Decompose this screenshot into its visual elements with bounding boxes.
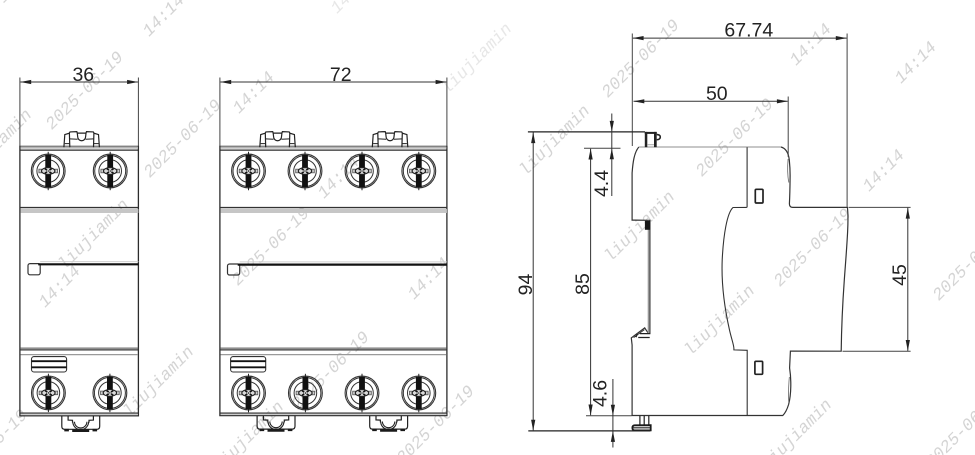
terminal screw top 2 — [288, 152, 322, 190]
terminal screw top 4 — [402, 152, 436, 190]
terminal screw bottom 3 — [345, 374, 379, 412]
vent grille — [231, 357, 266, 372]
svg-text:14:14: 14:14 — [230, 69, 280, 119]
side top clip hook — [657, 135, 661, 140]
extension 45 bottom — [843, 350, 911, 352]
svg-text:2025-06-19: 2025-06-19 — [394, 383, 480, 455]
inner contour (mechanism silhouette) — [722, 147, 747, 415]
top clip B — [372, 132, 408, 148]
svg-text:72: 72 — [330, 64, 352, 86]
top groove dark line — [220, 149, 447, 151]
svg-text:2025-06-19: 2025-06-19 — [923, 387, 975, 455]
terminal screw top 3 — [345, 152, 379, 190]
mid section boundary gray band — [21, 209, 139, 213]
dimension 50 line — [634, 100, 788, 102]
lower front bulge inner arc — [787, 377, 790, 403]
svg-text:14:14: 14:14 — [140, 0, 190, 41]
label slot shadow line — [40, 261, 138, 263]
mid section boundary dark line — [220, 207, 447, 209]
top groove gray band — [21, 146, 138, 148]
dimension 50 extension right — [787, 97, 789, 158]
svg-text:2025-06-19: 2025-06-19 — [43, 49, 129, 135]
svg-text:85: 85 — [572, 273, 594, 295]
svg-text:14:14: 14:14 — [328, 0, 378, 18]
dimension 72 extension line left — [219, 78, 221, 147]
mid section boundary dark line — [20, 207, 138, 209]
dimension 94 line — [532, 132, 534, 430]
svg-text:50: 50 — [706, 83, 728, 105]
upper front bulge inner arc — [788, 159, 789, 183]
lower boundary line 2 — [20, 349, 138, 351]
lower boundary gray band — [21, 354, 138, 356]
dimension 36 arrow right — [127, 80, 138, 84]
extension 85 top — [584, 147, 621, 149]
svg-text:liujiamin: liujiamin — [681, 282, 759, 360]
svg-text:94: 94 — [515, 274, 537, 296]
bottom edge line — [20, 412, 138, 414]
svg-text:2025-06-19: 2025-06-19 — [599, 17, 685, 103]
label slot line — [38, 263, 138, 265]
body outline 4-module — [220, 146, 447, 415]
svg-text:liujiamin: liujiamin — [516, 102, 594, 180]
bottom edge gray band — [221, 413, 447, 415]
vent grille — [32, 357, 67, 372]
dimension 36 extension line left — [19, 78, 21, 147]
dimension 36 arrow left — [20, 80, 31, 84]
svg-text:14:14: 14:14 — [787, 21, 837, 71]
svg-text:liujiamin: liujiamin — [601, 188, 679, 266]
body outline 2-module — [20, 146, 138, 415]
side top clip post right — [654, 132, 657, 147]
svg-text:liujiamin: liujiamin — [438, 20, 516, 98]
bottom spring hook bars — [636, 334, 651, 338]
dimension 4.6 line — [612, 379, 614, 448]
side top clip inner line — [647, 144, 654, 146]
rail channel wall double line — [648, 221, 650, 334]
dimension 72 line — [220, 81, 446, 83]
extension 45 top — [849, 206, 911, 208]
lower boundary line 1 — [220, 347, 447, 349]
bottom spring hook inner line — [634, 330, 645, 338]
label slot line — [238, 264, 447, 266]
svg-text:2025-06-19: 2025-06-19 — [930, 220, 975, 306]
svg-text:2025-06-19: 2025-06-19 — [229, 205, 315, 291]
side top clip bar — [645, 132, 657, 134]
top groove dark line — [20, 149, 138, 151]
bottom clip A — [257, 416, 295, 431]
dimension 45 line — [907, 208, 909, 351]
label slot shadow line — [240, 261, 447, 263]
top surface line — [639, 146, 781, 148]
bottom release clip foot midline — [633, 427, 651, 429]
svg-text:14:14: 14:14 — [892, 39, 942, 89]
mid section boundary gray band — [221, 209, 447, 213]
dimension 4.4 line — [611, 114, 613, 197]
svg-text:45: 45 — [889, 264, 911, 286]
bottom release clip stems — [640, 416, 649, 425]
terminal screw bottom 1 — [232, 374, 266, 412]
dimension 50 arrows — [633, 99, 644, 103]
lower boundary line 1 — [20, 347, 138, 349]
dimension 85 line — [590, 149, 592, 415]
dimension 67.74 extension right — [846, 34, 848, 207]
dimension 72 arrow right — [436, 80, 447, 84]
svg-text:liujiamin: liujiamin — [758, 396, 836, 455]
terminal screw top-right — [93, 152, 127, 190]
dimension 36 line — [20, 81, 137, 83]
terminal screw bottom 4 — [402, 374, 436, 412]
svg-text:2025-06-19: 2025-06-19 — [693, 96, 779, 182]
bottom edge line — [220, 412, 447, 414]
side top clip post left — [645, 132, 648, 147]
label window square — [28, 264, 40, 275]
svg-text:2025-06-19: 2025-06-19 — [141, 97, 227, 183]
tick 94 top — [528, 131, 645, 133]
dimension 36 extension line right — [137, 78, 139, 147]
terminal screw bottom-right — [93, 374, 127, 412]
svg-text:14:14: 14:14 — [36, 263, 86, 313]
dimension 67.74 line — [633, 37, 847, 39]
svg-text:2025-06-19: 2025-06-19 — [771, 206, 857, 292]
side body outline — [631, 147, 848, 416]
svg-text:4.4: 4.4 — [591, 170, 613, 197]
bottom clip — [62, 416, 100, 431]
svg-text:4.6: 4.6 — [590, 380, 612, 407]
svg-text:14:14: 14:14 — [860, 147, 910, 197]
dimension 67.74 arrows — [633, 36, 644, 40]
dimension 72 extension line right — [446, 78, 448, 147]
dimension 67.74 extension left — [631, 34, 633, 147]
bottom release clip foot — [632, 425, 650, 430]
terminal screw top-left — [31, 152, 65, 190]
tick 94 bottom — [528, 430, 650, 432]
svg-text:67.74: 67.74 — [724, 20, 773, 42]
svg-text:36: 36 — [72, 64, 94, 86]
top clip — [64, 132, 99, 148]
upper vent hole — [755, 189, 763, 203]
label window square — [228, 264, 240, 275]
terminal screw top 1 — [232, 152, 266, 190]
svg-text:2025-06-19: 2025-06-19 — [0, 0, 22, 65]
top clip A — [260, 132, 296, 148]
lower boundary gray band — [221, 354, 447, 356]
terminal screw bottom 2 — [289, 374, 323, 412]
extension 85 bottom — [586, 415, 632, 417]
lower vent hole — [755, 361, 763, 374]
terminal screw bottom-left — [32, 374, 66, 412]
top groove gray band — [221, 146, 447, 148]
dimension 72 arrow left — [220, 80, 231, 84]
bottom clip B — [370, 416, 408, 431]
rail hook fixed (black) — [645, 221, 650, 230]
bottom edge gray band — [21, 413, 138, 415]
lower boundary line 2 — [220, 349, 447, 351]
